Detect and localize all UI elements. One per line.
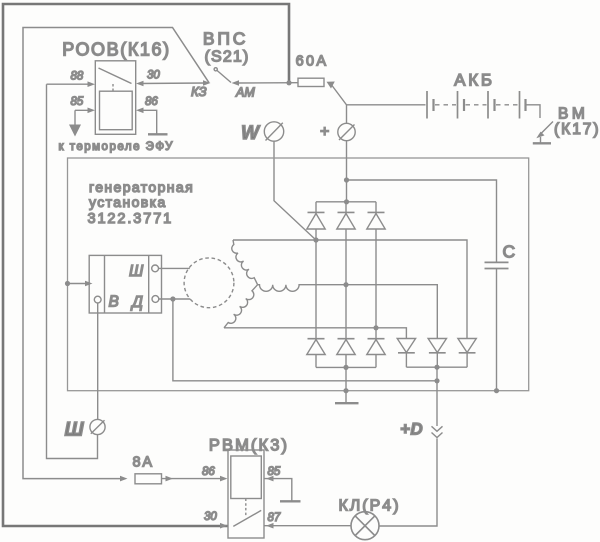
arrow from fuse to battery node — [327, 82, 335, 89]
fuse 8A body — [135, 474, 162, 484]
battery cell 1 short plate — [432, 99, 434, 111]
svg-text:30: 30 — [204, 511, 217, 523]
wire: phase 2 bus — [224, 328, 406, 339]
switch VPS lever pivot circle — [214, 68, 217, 71]
relay POOV(K16) coil box — [100, 91, 133, 130]
arrow into fuse 8A — [120, 476, 128, 482]
negative bus — [316, 366, 376, 368]
switch VM ground stub — [540, 137, 542, 143]
svg-text:86: 86 — [202, 466, 215, 478]
svg-text:+: + — [320, 124, 329, 141]
wire: to capacitor C — [347, 180, 497, 262]
wire: phase 1 bus — [233, 240, 467, 339]
svg-text:КЗ: КЗ — [191, 84, 207, 99]
wire: phase 3 bus — [302, 285, 437, 339]
battery cell 2 short plate — [463, 99, 465, 111]
battery cell 3 short plate — [493, 99, 495, 111]
junction phase1/column1 — [313, 237, 318, 242]
diode VD2- — [337, 339, 355, 368]
wire: pin 85 stub — [75, 109, 92, 111]
wire: V input from case edge — [68, 283, 89, 285]
svg-text:86: 86 — [145, 96, 158, 108]
rotor field winding circle — [184, 258, 234, 308]
regulator pin D circle — [152, 296, 159, 303]
svg-text:генераторная: генераторная — [89, 179, 194, 195]
junction phase2/column3 — [373, 325, 378, 330]
relay RVM contact lever — [233, 510, 261, 526]
terminal W slash — [266, 123, 283, 141]
battery cell 4 short plate — [524, 99, 526, 111]
regulator pin Sh circle — [152, 265, 159, 272]
wire: pin 88 to left loop — [47, 83, 93, 85]
diode VD5 aux — [428, 339, 446, 368]
wire: fuse 8A to RVM pin 86 — [162, 478, 225, 480]
switch VM(K17) lever — [539, 122, 553, 136]
lamp KL(P4) cross — [355, 516, 375, 536]
stator phase 3 winding — [258, 285, 302, 292]
wire: ignition KZ loop (inner frame from KZ terminal to 8A fuse) — [23, 28, 209, 479]
arrow into regulator V — [85, 281, 93, 287]
wire: Sh terminal loop to POOV pin 88 — [47, 84, 98, 458]
phase column 2 — [345, 229, 347, 339]
relay RVM(K3) outer box — [228, 450, 264, 538]
svg-text:3122.3771: 3122.3771 — [88, 211, 174, 227]
relay POOV(K16) actuator dash — [112, 84, 114, 91]
wire: +D down to lamp — [379, 439, 437, 527]
wire: battery minus lead — [526, 105, 541, 118]
diode VD4 aux — [397, 339, 415, 368]
wire: Sh (V-pin) down to Sh output terminal — [97, 303, 99, 419]
switch VM arrowhead — [536, 132, 544, 139]
svg-text:(S21): (S21) — [204, 49, 249, 66]
wire: battery+ feed border loop (top/left/bottom frame) — [3, 4, 289, 526]
diode VD1+ — [307, 202, 325, 229]
svg-text:88: 88 — [71, 71, 84, 83]
arrow into pin 30 — [136, 81, 144, 87]
phase column 1 — [315, 229, 317, 339]
terminal +12V circle — [338, 123, 355, 140]
svg-text:Ш: Ш — [65, 419, 85, 441]
junction at 60A branch — [286, 80, 291, 85]
terminal Sh slash — [91, 420, 105, 433]
diode VD1- — [307, 339, 325, 368]
ground bar (RVM 85) — [280, 500, 301, 502]
junction aux bus — [434, 365, 439, 370]
svg-text:(К17): (К17) — [554, 121, 600, 138]
wire: aux bus down to +D — [436, 367, 438, 426]
regulator divider left — [104, 255, 106, 313]
capacitor C plates — [485, 261, 509, 263]
battery cell 2 long plate — [457, 91, 459, 119]
switch VPS lever — [217, 70, 232, 83]
junction V wire on case edge — [65, 281, 70, 286]
svg-text:В: В — [109, 294, 119, 311]
arrow out pin 85 — [266, 476, 274, 482]
svg-text:30: 30 — [147, 69, 160, 81]
wire: to thermal relay (down from 85) — [74, 110, 76, 126]
ground bar (generator) — [335, 402, 359, 404]
wire: + terminal down into rectifier — [346, 141, 348, 202]
junction negative bus — [343, 365, 348, 370]
junction field return — [434, 378, 439, 383]
capacitor C bottom lead — [496, 269, 498, 391]
relay RVM actuator dash — [245, 499, 247, 517]
relay RVM(K3) coil box — [231, 456, 261, 499]
wire: W terminal to phase 1 — [274, 141, 316, 240]
arrow into pin 88 — [88, 81, 96, 87]
relay POOV(K16) contact lever — [99, 68, 132, 84]
arrow to thermal relay EFU — [69, 125, 81, 137]
svg-text:Д: Д — [130, 294, 143, 311]
positive diode bus — [316, 201, 376, 203]
wire: diagonal fuse to + terminal corner — [332, 86, 347, 124]
battery cell 1 long plate — [426, 91, 428, 119]
aux diode bus — [406, 366, 467, 368]
svg-text:АКБ: АКБ — [454, 71, 495, 90]
relay POOV(K16) outer box — [95, 61, 135, 135]
terminal Sh circle — [90, 419, 105, 434]
terminal + slash — [339, 125, 355, 141]
svg-text:РВМ(К3): РВМ(К3) — [209, 437, 289, 455]
wire: pin 86 to ground — [139, 110, 157, 133]
wire: Sh pin to rotor brush — [159, 267, 190, 269]
svg-text:РООВ(К16): РООВ(К16) — [62, 40, 171, 60]
svg-text:60А: 60А — [296, 54, 329, 70]
svg-text:8А: 8А — [133, 455, 154, 471]
wire: RVM 87 to lamp — [264, 525, 351, 527]
junction D branch — [170, 296, 175, 301]
ground bar VM(K17) — [533, 142, 551, 144]
svg-text:C: C — [503, 242, 516, 262]
svg-text:+D: +D — [400, 420, 423, 439]
junction phase3/column2 — [343, 282, 348, 287]
stator phase 2 winding — [224, 285, 258, 328]
diode VD6 aux — [458, 339, 476, 368]
voltage regulator box — [89, 255, 161, 313]
wire: pin 30 to KZ terminal — [139, 82, 207, 85]
diode VD2+ — [337, 202, 355, 229]
svg-text:ВМ: ВМ — [558, 106, 588, 123]
arrow into pin 86 — [136, 108, 144, 114]
battery dash link 2 — [466, 104, 487, 106]
svg-text:W: W — [241, 123, 261, 144]
arrow out pin 87 — [266, 523, 274, 529]
svg-text:87: 87 — [268, 512, 281, 524]
wire: D pin to rotor brush — [159, 298, 190, 300]
svg-text:АМ: АМ — [235, 86, 255, 100]
diode VD3- — [367, 339, 385, 368]
ground bar (POOV 86) — [148, 133, 168, 135]
arrow at KZ terminal — [203, 80, 211, 86]
wire: field return to +D node — [173, 299, 437, 381]
arrow into pin 30 — [220, 523, 228, 529]
phase column 3 — [375, 229, 377, 339]
wire: AM to fuse 60A — [237, 82, 298, 84]
svg-text:ВПС: ВПС — [203, 29, 248, 49]
wire: negative bus to ground — [345, 367, 347, 403]
regulator pin V circle — [94, 296, 101, 303]
battery dash link 3 — [496, 104, 518, 106]
svg-text:85: 85 — [71, 96, 84, 108]
arrow into RVM pin 86 — [220, 476, 228, 482]
battery dash link 1 — [435, 104, 456, 106]
regulator divider right — [148, 255, 150, 313]
stator phase 1 winding — [232, 240, 258, 285]
junction ground at case — [343, 388, 348, 393]
svg-text:Ш: Ш — [129, 263, 144, 280]
junction + bus — [344, 199, 349, 204]
arrow into pin 85 — [88, 108, 96, 114]
fuse 60A body — [298, 78, 324, 86]
terminal W circle — [264, 122, 283, 141]
svg-text:85: 85 — [268, 466, 281, 478]
arrow at AM terminal — [232, 80, 240, 86]
battery cell 4 long plate — [519, 91, 521, 119]
battery cell 3 long plate — [487, 91, 489, 119]
connector chevron +D — [432, 426, 443, 437]
wire: battery horizontal — [347, 104, 426, 106]
svg-text:установка: установка — [89, 194, 167, 210]
lamp KL(P4) circle — [351, 512, 379, 540]
junction capacitor to case — [494, 388, 499, 393]
diode VD3+ — [367, 202, 385, 229]
generator unit box — [68, 158, 529, 391]
arrow after fuse 8A — [166, 476, 174, 482]
wire: RVM 85 to ground — [264, 479, 292, 501]
junction + to capacitor wire — [344, 177, 349, 182]
svg-text:к термореле ЭФУ: к термореле ЭФУ — [59, 141, 174, 153]
